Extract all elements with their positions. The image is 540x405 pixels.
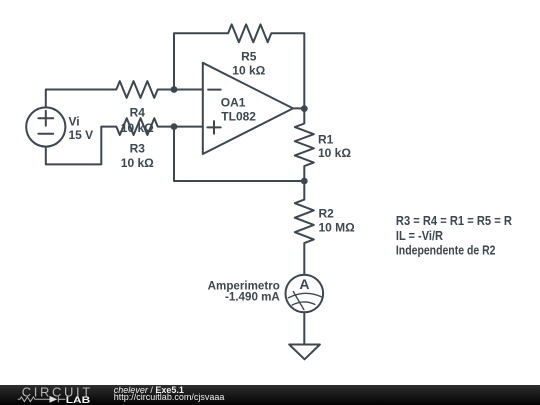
svg-text:R2: R2	[319, 207, 335, 221]
svg-text:10 kΩ: 10 kΩ	[232, 64, 265, 78]
svg-text:Vi: Vi	[69, 114, 80, 128]
svg-text:R3 = R4 = R1 = R5 = R: R3 = R4 = R1 = R5 = R	[396, 213, 512, 228]
svg-text:OA1: OA1	[221, 96, 246, 110]
svg-text:15 V: 15 V	[69, 128, 94, 142]
svg-text:10 kΩ: 10 kΩ	[318, 146, 351, 160]
svg-text:10 kΩ: 10 kΩ	[121, 121, 154, 135]
svg-text:R1: R1	[318, 132, 334, 146]
svg-text:TL082: TL082	[221, 109, 256, 123]
svg-text:R3: R3	[130, 141, 146, 155]
svg-text:LAB: LAB	[66, 394, 91, 405]
svg-text:-1.490 mA: -1.490 mA	[225, 291, 280, 304]
svg-text:IL = -Vi/R: IL = -Vi/R	[396, 228, 443, 243]
svg-text:10 kΩ: 10 kΩ	[121, 156, 154, 170]
svg-text:R5: R5	[241, 50, 257, 64]
svg-text:R4: R4	[130, 106, 146, 120]
svg-text:A: A	[299, 276, 309, 292]
svg-text:10 MΩ: 10 MΩ	[319, 220, 356, 234]
svg-text:Independente de R2: Independente de R2	[396, 243, 496, 258]
